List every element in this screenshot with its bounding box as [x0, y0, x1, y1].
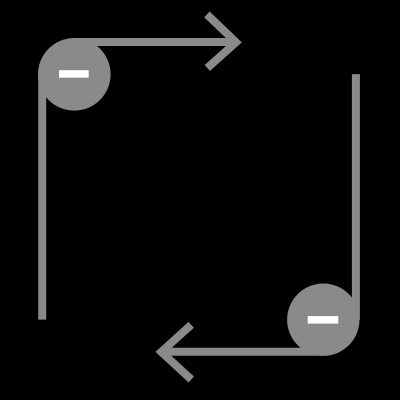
node: negative charge terminal 1 (top-left circle): [38, 38, 111, 111]
arrowhead: top arrow pointing right: [207, 14, 236, 68]
wire: bottom horizontal arrow shaft: [161, 348, 323, 356]
node: negative charge terminal 2 (bottom-right circle): [287, 284, 359, 356]
minus sign of terminal 1: [59, 70, 89, 78]
wire: right vertical segment: [352, 74, 360, 320]
wire: top horizontal arrow shaft: [74, 38, 236, 46]
minus sign of terminal 2: [308, 316, 339, 324]
wire: left vertical segment: [38, 74, 46, 320]
arrowhead: bottom arrow pointing left: [161, 325, 191, 380]
